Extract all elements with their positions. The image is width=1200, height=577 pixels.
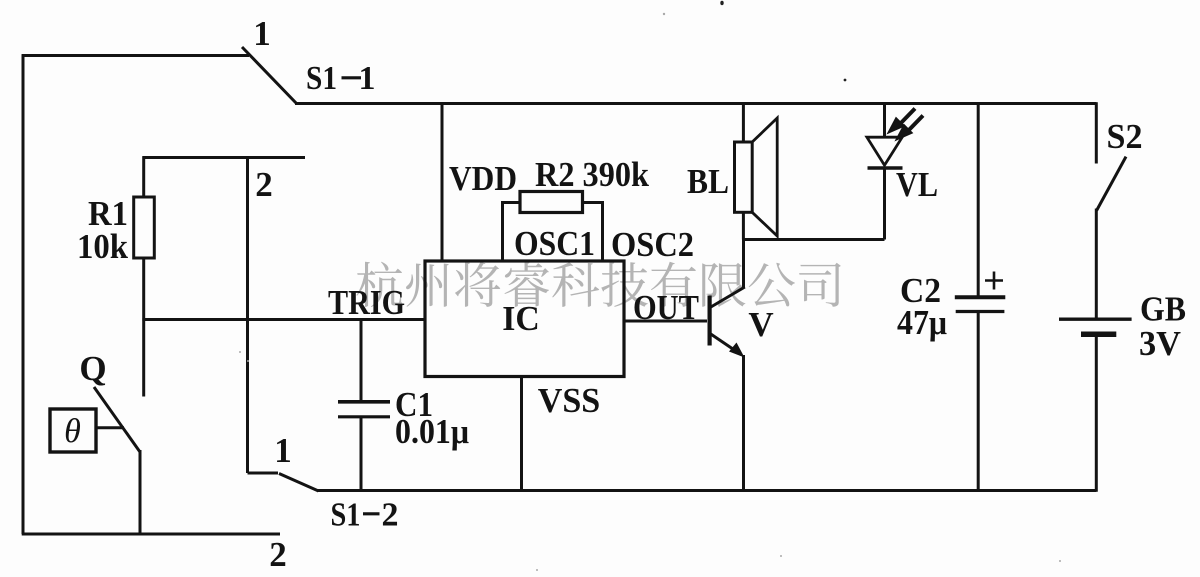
svg-text:VSS: VSS bbox=[538, 381, 601, 420]
wire: S1-1 contact 2 horizontal bbox=[143, 156, 306, 159]
svg-text:TRIG: TRIG bbox=[328, 283, 405, 322]
svg-text:V: V bbox=[748, 305, 773, 344]
transistor V emitter arrowhead bbox=[729, 343, 745, 358]
svg-text:S1: S1 bbox=[331, 497, 361, 534]
svg-text:Q: Q bbox=[79, 349, 106, 388]
wire: S1-2 contact 1 stub bbox=[248, 472, 279, 475]
wire: collector up to speaker junction bbox=[742, 240, 745, 289]
wire: top rail positive supply bbox=[295, 102, 1096, 105]
svg-text:0.01μ: 0.01μ bbox=[395, 412, 469, 451]
wire: battery bottom lead bbox=[1095, 337, 1098, 492]
svg-text:2: 2 bbox=[382, 497, 399, 534]
battery GB short plate bbox=[1081, 331, 1116, 337]
transistor V emitter bbox=[710, 334, 741, 355]
svg-text:47μ: 47μ bbox=[897, 303, 947, 342]
switch S1-1 arm bbox=[242, 47, 297, 104]
switch Q arm thermal switch bbox=[94, 387, 140, 452]
svg-text:OSC2: OSC2 bbox=[611, 225, 694, 264]
svg-text:2: 2 bbox=[255, 165, 273, 204]
IC U1 box bbox=[425, 261, 624, 377]
svg-text:1: 1 bbox=[359, 60, 376, 97]
label dashes for S1-1 and S1-2 bbox=[342, 78, 380, 514]
wire: VSS pin lead to bottom rail bbox=[520, 377, 523, 491]
svg-text:θ: θ bbox=[64, 413, 81, 450]
svg-text:OUT: OUT bbox=[633, 288, 699, 327]
svg-text:OSC1: OSC1 bbox=[514, 224, 595, 263]
resistor R2 body bbox=[520, 192, 583, 213]
capacitor C1 plates bbox=[338, 400, 390, 404]
svg-text:1: 1 bbox=[274, 431, 292, 470]
LED VL emission arrows bbox=[888, 109, 924, 141]
wire: LED bottom lead bbox=[883, 169, 886, 240]
wire: R1 bottom lead down to Q contact bbox=[142, 258, 145, 397]
LED VL cathode bar bbox=[868, 166, 903, 169]
speaker BL top lead bbox=[742, 104, 745, 143]
wire: C2 bottom lead bbox=[977, 313, 980, 491]
svg-text:S2: S2 bbox=[1107, 117, 1143, 156]
wire: OUT pin to transistor base bbox=[624, 320, 707, 323]
svg-text:1: 1 bbox=[253, 14, 271, 53]
svg-text:GB: GB bbox=[1140, 290, 1186, 329]
switch S1-2 arm bbox=[279, 474, 319, 492]
svg-text:VDD: VDD bbox=[449, 159, 517, 198]
svg-text:R2 390k: R2 390k bbox=[535, 155, 649, 194]
wire: OSC1 pin lead and loop bbox=[503, 203, 521, 262]
capacitor C2 plus sign bbox=[985, 272, 1003, 290]
wire: TRIG net horizontal bbox=[142, 318, 425, 321]
wire: bottom rail ground return bbox=[318, 489, 1097, 492]
speaker BL driver rectangle bbox=[735, 142, 753, 212]
capacitor C2 plates bbox=[955, 295, 1006, 299]
svg-text:10k: 10k bbox=[77, 227, 128, 266]
wire: bottom-left return S1-2 contact 2 bbox=[22, 533, 280, 536]
wire: VDD pin lead bbox=[441, 104, 444, 262]
wire: Q arm down to bottom-left wire bbox=[139, 450, 142, 534]
wire: theta box to Q arm bbox=[96, 426, 124, 429]
transistor V base bar bbox=[708, 296, 712, 346]
wire: S2 to battery bbox=[1095, 209, 1098, 318]
switch S2 arm bbox=[1097, 157, 1126, 211]
svg-text:VL: VL bbox=[896, 165, 938, 204]
battery GB long plate bbox=[1059, 318, 1132, 321]
switch S2 upper contact lead bbox=[1095, 102, 1098, 163]
wire: junction to LED bottom bbox=[743, 238, 884, 241]
svg-text:S1: S1 bbox=[306, 60, 337, 97]
watermark text: hangzhou jiangrui keji youxian gongsi bbox=[356, 262, 840, 307]
wire: vertical from contact-2 wire to S1-2 contact 1 bbox=[246, 158, 249, 474]
wire: left vertical bus bbox=[22, 54, 25, 534]
svg-text:2: 2 bbox=[269, 535, 287, 574]
capacitor C2 top lead bbox=[977, 104, 980, 296]
svg-text:3V: 3V bbox=[1139, 324, 1181, 363]
sensor theta box bbox=[50, 409, 96, 452]
wire: top-left horizontal to S1-1 contact 1 bbox=[22, 54, 249, 57]
wire: emitter down to bottom rail bbox=[742, 355, 745, 491]
scan specks bbox=[720, 1, 846, 82]
transistor V collector bbox=[710, 287, 745, 308]
wire: R1 top lead bbox=[142, 156, 145, 197]
LED VL triangle bbox=[867, 137, 902, 165]
speaker BL cone bbox=[752, 118, 777, 236]
svg-text:IC: IC bbox=[502, 299, 540, 338]
wire: speaker bottom lead bbox=[742, 212, 745, 239]
wire: C1 bottom lead bbox=[360, 418, 363, 491]
resistor R1 body bbox=[134, 197, 155, 258]
LED VL top lead bbox=[883, 104, 886, 138]
svg-text:BL: BL bbox=[687, 162, 729, 201]
wire: C1 top lead bbox=[360, 320, 363, 401]
wire: OSC2 pin lead and loop bbox=[583, 203, 603, 262]
